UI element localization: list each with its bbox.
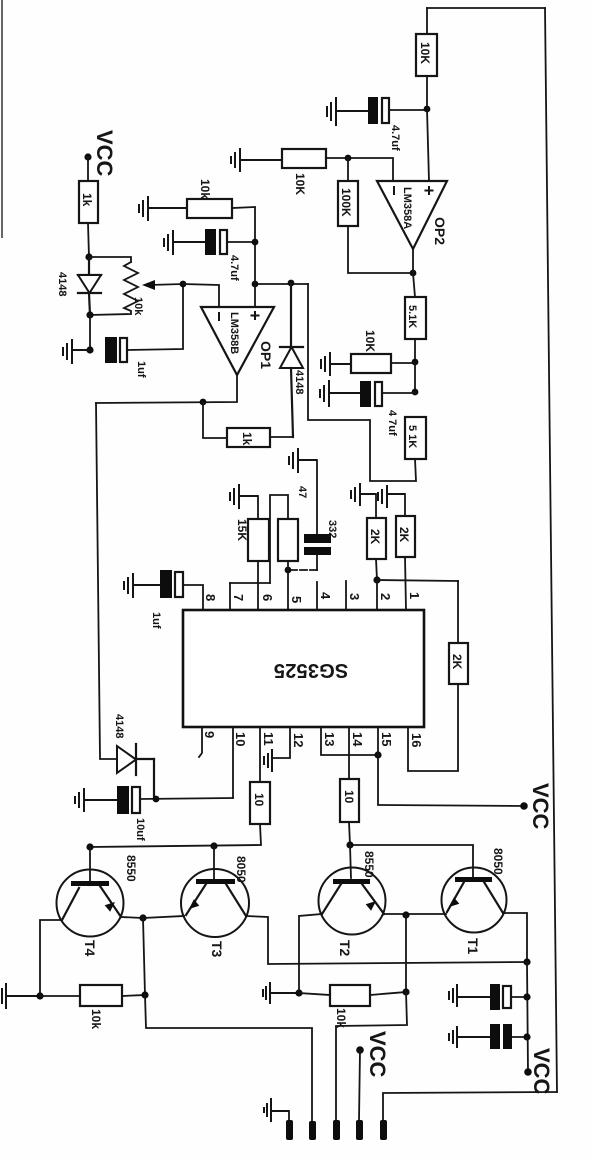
wire OP1 + vertical [254, 242, 256, 307]
op-amp OP2 LM358A [377, 181, 447, 249]
resistor 10k (T4 row) [80, 985, 122, 1006]
resistor 2K (right, pin 1) [404, 494, 406, 516]
svg-text:10k: 10k [89, 1009, 103, 1029]
capacitor 4.7uf (top, at OP2 +) [368, 97, 378, 124]
ground (for 10uf) [75, 788, 117, 812]
ground (cap 1) [449, 984, 491, 1007]
wire T2 emitter left down [299, 914, 322, 993]
ground (bottom far left) [2, 983, 40, 1009]
wire ground to bar1 [288, 1111, 290, 1121]
ground (for mid 10K) [321, 352, 351, 376]
svg-text:4: 4 [318, 592, 333, 600]
resistor 2K (pin1 to pin16) [457, 581, 459, 643]
svg-text:4 7uf: 4 7uf [386, 410, 398, 436]
svg-text:T4: T4 [82, 940, 98, 957]
wire T1 collector to rail [503, 913, 527, 962]
wire node down to 10k row [405, 915, 407, 992]
terminal bar 3 [333, 1120, 340, 1140]
resistor 1k (OP1 feedback) [227, 428, 270, 447]
svg-text:47: 47 [296, 486, 308, 498]
wire pin11 10R to T4/T3 bases [90, 824, 261, 847]
diode 4148 (OP1 feedback) [280, 283, 303, 437]
wire rail to OP1 inputs [183, 284, 219, 307]
wire bottom right to bar5 [383, 1092, 557, 1121]
resistor 100K [338, 181, 358, 226]
IC SG3525 [183, 610, 424, 727]
svg-text:5 1K: 5 1K [406, 425, 418, 448]
wire 332 to pin 5 node (dashed) [316, 555, 318, 570]
svg-text:LM358B: LM358B [228, 312, 240, 354]
pin 14 wire [348, 727, 350, 779]
svg-text:2K: 2K [397, 527, 411, 543]
diode 4148 (left shunt) [78, 257, 101, 315]
capacitor 4.7uf (at OP1 +) [205, 229, 216, 255]
wire node to pot top [89, 257, 131, 262]
pin 16 wire to 2K [408, 684, 458, 771]
resistor (timing, unlabeled) [278, 519, 298, 561]
svg-text:LM358A: LM358A [401, 187, 413, 229]
ground (top, for 4.7uf) [327, 97, 369, 126]
svg-text:4.7uf: 4.7uf [389, 125, 401, 151]
svg-text:10: 10 [342, 790, 356, 804]
node T4/T3 join [139, 914, 146, 921]
wire pin14 10R to T2/T1 bases [349, 822, 473, 878]
ground (15K) [230, 484, 258, 509]
wire VCC to bar4 [359, 1050, 360, 1121]
svg-text:10K: 10K [418, 42, 432, 64]
svg-text:OP2: OP2 [432, 217, 448, 245]
node T4 base [86, 843, 93, 850]
wire right edge vertical [545, 8, 557, 1092]
svg-text:10K: 10K [363, 330, 377, 352]
wire right rail down [527, 962, 528, 1072]
wire top horizontal [427, 7, 545, 9]
ground (left, at 1uf) [63, 339, 90, 364]
node T2 emitter row [295, 989, 302, 996]
ground (for 10k at OP2 -) [231, 148, 282, 172]
svg-text:10: 10 [233, 732, 248, 746]
node 5.1K/10K [412, 359, 419, 366]
wire 100K bottom to OP2 output [348, 226, 413, 273]
svg-text:332: 332 [326, 520, 338, 538]
resistor 10 (pin 14) [340, 779, 359, 822]
resistor 5 1K (lower) [405, 417, 426, 459]
pin 3 stub [345, 581, 347, 610]
wire T3 collector to right rail [246, 916, 527, 964]
svg-text:T1: T1 [465, 938, 481, 955]
pin 11 wire [259, 727, 261, 782]
wire 47 to 332 cap [316, 460, 318, 535]
resistor 5.1K [405, 297, 426, 339]
left edge scan line [1, 0, 3, 238]
ground (connector) [264, 1098, 289, 1122]
capacitor (ceramic, rail) [490, 1024, 500, 1049]
svg-text:VCC: VCC [92, 130, 117, 177]
resistor 10K (mid, to ground) [351, 354, 391, 373]
svg-text:14: 14 [350, 732, 365, 747]
capacitor (electrolytic, rail) [490, 984, 500, 1010]
svg-text:VCC: VCC [365, 1031, 390, 1078]
capacitor 1uf (at pot wiper) [105, 337, 117, 363]
capacitor 10uf [117, 786, 129, 814]
svg-text:1k: 1k [80, 193, 94, 207]
ground (2K right) [378, 485, 405, 508]
resistor 10K (top right) [416, 34, 437, 76]
potentiometer 10k zigzag [90, 262, 138, 315]
wire T4 emitter down [40, 920, 62, 996]
node OP1 output/1k tap [200, 399, 207, 406]
svg-text:5: 5 [289, 596, 304, 603]
svg-text:SG3525: SG3525 [274, 659, 349, 681]
svg-text:10K: 10K [293, 173, 307, 195]
svg-text:4148: 4148 [293, 370, 305, 394]
node OP2 output [410, 270, 417, 277]
node 10k right [141, 991, 148, 998]
ground (cap 2) [449, 1026, 490, 1048]
capacitor 1uf (at pin 8) [160, 570, 172, 598]
wire node to OP2 + input [427, 109, 429, 181]
wire long feedback left vertical [96, 403, 117, 759]
node 10uf/diode/pin10 [153, 796, 160, 803]
node VCC (connector) [356, 1046, 364, 1054]
transistor T4 (8550) [57, 870, 124, 937]
svg-text:7: 7 [231, 594, 246, 601]
svg-text:8050: 8050 [234, 856, 248, 883]
svg-text:4148: 4148 [113, 714, 125, 738]
svg-text:1uf: 1uf [150, 612, 162, 629]
wire 10K bottom to node [426, 76, 428, 109]
resistor 10k (to OP2 -) [282, 149, 326, 168]
op-amp OP1 LM358B [201, 307, 274, 375]
node diode/pot top [85, 253, 92, 260]
wire node down to 10k row [143, 918, 145, 995]
transistor T3 (8050) [181, 869, 249, 937]
pin 4 stub [316, 582, 318, 610]
node wiper rail [180, 281, 187, 288]
svg-text:T3: T3 [209, 941, 225, 958]
svg-text:6: 6 [260, 594, 275, 601]
svg-text:13: 13 [322, 732, 337, 746]
resistor 1k (from VCC) [79, 181, 98, 223]
svg-text:9: 9 [202, 731, 217, 738]
svg-text:T2: T2 [337, 940, 353, 957]
node VCC (right rail) [524, 1068, 532, 1076]
wire pot bottom to ground node [89, 315, 91, 350]
pin 13 wire to pin 15 [321, 727, 378, 755]
node 10k/100K [345, 155, 352, 162]
svg-text:10uf: 10uf [134, 818, 146, 841]
resistor 15K [257, 496, 259, 519]
resistor 2K (left, pin 2) [375, 494, 377, 518]
node T2/T1 join [402, 911, 409, 918]
transistor T1 (8050) [442, 868, 507, 933]
node T2 base [346, 841, 353, 848]
svg-text:VCC: VCC [528, 783, 553, 830]
node rail to diode 4148 [288, 280, 295, 287]
svg-text:8550: 8550 [124, 855, 138, 882]
node VCC top left [84, 153, 91, 160]
wire VCC to 1k [87, 157, 89, 181]
terminal bar 5 [380, 1120, 387, 1140]
ground (47 cap) [289, 448, 317, 473]
wire timing resistor top loop [270, 495, 288, 583]
svg-text:10: 10 [252, 793, 266, 807]
ground (1uf at pin 8) [124, 573, 160, 598]
wire pin2/pin1 to 2K feedback [376, 580, 378, 610]
wire OP1 output [96, 375, 237, 403]
resistor 10K (T2 row) [330, 985, 370, 1006]
svg-text:100K: 100K [339, 188, 353, 217]
ground (for 10k at OP1) [139, 196, 187, 221]
wire node down to 100K [347, 158, 349, 181]
transistor T2 (8550) [319, 868, 386, 935]
wire timing resistor bottom to pin 5 [287, 561, 289, 610]
svg-text:15K: 15K [235, 519, 249, 541]
ground (for 4.7uf at OP1) [164, 230, 205, 255]
resistor 10k (at OP1 +) [187, 199, 232, 218]
diode 4148 (horizontal, soft start) [117, 744, 154, 798]
wire 5.1K lower to OP1 + node [308, 284, 416, 481]
node ground/1uf [86, 346, 93, 353]
wire T4 collector to T3 [121, 916, 184, 918]
svg-text:2K: 2K [368, 529, 382, 545]
wire 10k to 4.7uf node [232, 207, 255, 242]
node OP1 + [252, 281, 259, 288]
svg-text:1uf: 1uf [135, 361, 147, 378]
resistor 10 (pin 11) [250, 782, 270, 824]
wire T2 collector to T1 [384, 913, 446, 915]
svg-text:4.7uf: 4.7uf [228, 255, 240, 281]
ground (T2 emitter row) [263, 982, 299, 1004]
node pot bottom [86, 311, 93, 318]
node 10K right [402, 988, 409, 995]
node pin 5 [285, 567, 292, 574]
terminal bar 1 [286, 1120, 293, 1140]
svg-text:5.1K: 5.1K [406, 305, 418, 328]
terminal bar 4 [356, 1120, 363, 1140]
svg-text:8550: 8550 [362, 851, 376, 878]
svg-text:OP1: OP1 [258, 341, 274, 369]
wire 10k to OP2 - input [326, 158, 393, 181]
node pin 2 [373, 576, 380, 583]
wire OP2 output down [413, 249, 415, 297]
pin 9 stub [199, 727, 202, 757]
wire node to node [414, 362, 416, 392]
pin 15 wire to VCC [378, 727, 524, 806]
node 4.7uf [412, 389, 419, 396]
terminal bar 2 [309, 1121, 316, 1140]
wire 10K top stub [426, 8, 428, 34]
wire node down and across to pin bar3 [336, 992, 407, 1121]
svg-text:10k: 10k [132, 297, 144, 316]
node T3 base [210, 842, 217, 849]
svg-text:8: 8 [203, 594, 218, 601]
svg-text:2: 2 [378, 593, 393, 600]
wire 5.1K to node [414, 339, 416, 362]
capacitor 332 [304, 534, 331, 543]
wire 1k to diode bottom [270, 436, 293, 438]
ground (for mid 4.7uf) [320, 380, 361, 407]
svg-text:10k: 10k [198, 179, 212, 199]
svg-text:12: 12 [291, 733, 306, 747]
svg-text:15: 15 [379, 732, 394, 746]
svg-text:16: 16 [409, 733, 424, 747]
node at OP2 + [424, 106, 431, 113]
wire tap down to 1k [203, 402, 227, 438]
potentiometer wiper arrow [150, 284, 183, 285]
svg-text:4148: 4148 [56, 272, 68, 296]
svg-text:1k: 1k [240, 432, 254, 446]
pin 10 wire [232, 727, 234, 798]
svg-text:VCC: VCC [529, 1048, 554, 1095]
wire 1k to node [88, 223, 89, 257]
svg-text:2K: 2K [450, 654, 464, 670]
node T4 emitter row [36, 992, 43, 999]
svg-text:8050: 8050 [491, 848, 505, 875]
wire node down and across to pin bar2 [145, 995, 312, 1121]
pin 12 to ground [272, 727, 290, 758]
ground (2K left) [351, 483, 376, 506]
svg-text:1: 1 [407, 592, 422, 599]
node VCC (pin 15) [520, 802, 528, 810]
node pin 15 [374, 751, 381, 758]
capacitor 4.7uf (mid) [360, 381, 371, 407]
svg-text:3: 3 [347, 593, 362, 600]
svg-text:11: 11 [261, 732, 276, 746]
node right rail top [523, 958, 530, 965]
wire 15K bottom to pins 6/7 [257, 561, 259, 583]
